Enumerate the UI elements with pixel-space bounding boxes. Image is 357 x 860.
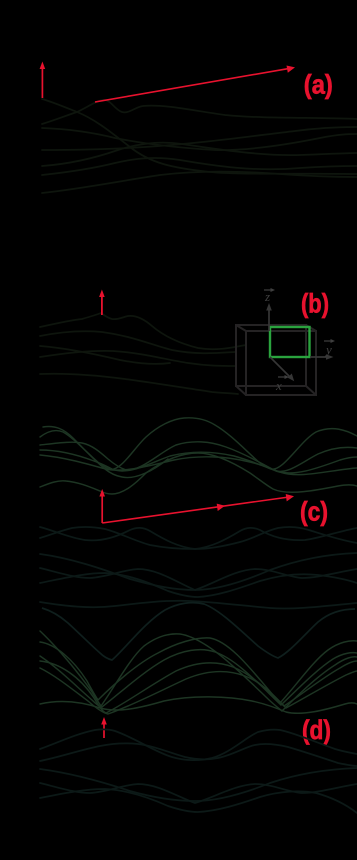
svg-text:(a): (a) [304, 70, 333, 100]
z axis label [264, 288, 275, 304]
green rectangle on box [270, 327, 310, 357]
y axis label [324, 339, 335, 357]
svg-text:z: z [264, 289, 270, 304]
arrow vertical red panel c [99, 489, 105, 523]
panel (c) bottom curves [40, 527, 357, 609]
x axis arrow [270, 357, 294, 381]
svg-text:x: x [275, 378, 282, 393]
panel (c) top green curves [40, 418, 357, 494]
panel (d) top green curves [40, 631, 357, 714]
panel (d) bottom curves [40, 729, 357, 813]
svg-text:y: y [324, 342, 332, 357]
svg-text:(d): (d) [302, 715, 331, 745]
svg-text:(c): (c) [300, 497, 328, 527]
arrow vertical red panel d [101, 717, 107, 738]
arrow vertical red panel a [40, 62, 46, 99]
arrow diagonal red panel c with mid arrowhead [102, 494, 294, 523]
arrow diagonal red panel a [95, 66, 295, 103]
inset box front square [246, 331, 316, 395]
svg-text:(b): (b) [301, 289, 329, 319]
inset box corner connectors [236, 325, 316, 395]
arrow vertical red panel b [99, 290, 105, 316]
panel (d) dark band strand [42, 603, 355, 660]
z axis arrow [266, 303, 272, 331]
y axis arrow [310, 354, 334, 360]
panel (b) band curves [40, 313, 246, 394]
inset box back square [236, 325, 316, 395]
x axis label [275, 375, 289, 393]
panel (a) band curves [42, 99, 357, 193]
